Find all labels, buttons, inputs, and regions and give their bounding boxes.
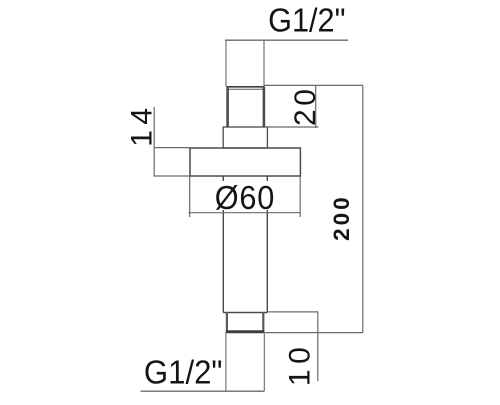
extension line thread-top right (for 20 and 200) xyxy=(265,84,364,86)
dimension line Ø60 xyxy=(188,212,300,214)
svg-text:G1/2": G1/2" xyxy=(268,1,345,38)
extension line thread-bottom right (for 20) xyxy=(265,126,319,128)
bottom label leader line xyxy=(141,390,265,392)
dimension line 14 xyxy=(153,107,155,177)
svg-text:20: 20 xyxy=(289,86,322,126)
top thread (G1/2 male) xyxy=(227,87,265,128)
bottom leader left connector xyxy=(225,332,227,391)
bottom leader right connector xyxy=(263,332,265,391)
step collar below top thread xyxy=(223,127,267,148)
extension line thread-bottom right (for 10 and 200) xyxy=(265,332,363,334)
extension line flange left down (for Ø60) xyxy=(189,176,191,217)
top leader left connector xyxy=(225,40,227,86)
shaft (pipe body) xyxy=(223,176,267,313)
svg-text:200: 200 xyxy=(329,194,354,241)
bottom thread (G1/2 male) xyxy=(226,313,265,332)
svg-text:10: 10 xyxy=(283,342,316,386)
extension line flange-bottom left (for 14) xyxy=(154,175,190,177)
top leader right connector xyxy=(263,40,265,86)
dimension text Ø60 background xyxy=(214,181,276,210)
top label leader line xyxy=(225,39,348,41)
svg-text:14: 14 xyxy=(125,102,158,146)
extension line shaft-bottom right (for 10) xyxy=(268,311,319,313)
svg-text:G1/2": G1/2" xyxy=(144,353,223,390)
dimension line 20 xyxy=(315,85,317,128)
extension line flange right down (for Ø60) xyxy=(299,176,301,217)
extension line flange-top left (for 14) xyxy=(154,147,190,149)
flange Ø60 xyxy=(190,148,300,176)
svg-text:Ø60: Ø60 xyxy=(215,179,275,216)
dimension line 200 xyxy=(362,85,364,332)
dimension line 10 xyxy=(317,312,319,381)
